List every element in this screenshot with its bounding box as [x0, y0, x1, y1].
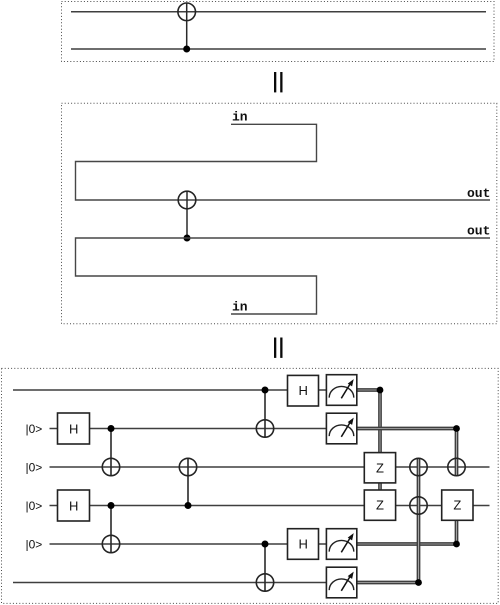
CNOT control dot on w5: [262, 541, 269, 548]
svg-text:in: in: [232, 110, 248, 125]
wire w1: [13, 389, 357, 391]
classically controlled X target on w3 at x=418.5: [410, 458, 427, 475]
junction dot w1 classical: [377, 387, 384, 394]
svg-text:Z: Z: [376, 498, 384, 513]
svg-text:H: H: [69, 499, 78, 514]
classically controlled X target on w3 at x=456.5: [448, 458, 465, 475]
H gate on w5: [288, 529, 319, 560]
wire w4: [90, 505, 490, 507]
CNOT w4->w5 vertical: [110, 506, 112, 553]
svg-text:|0>: |0>: [26, 499, 43, 513]
classical wire from meter w2: [357, 427, 458, 476]
svg-text:|0>: |0>: [26, 461, 43, 475]
CNOT control dot on w2: [108, 425, 115, 432]
Z gate on w4 (classically controlled by w5): [442, 490, 473, 520]
equivalence symbol 1: [274, 72, 283, 92]
junction dot w6 classical: [415, 579, 422, 586]
measurement gate on w2: [326, 413, 356, 444]
CNOT target on w3 at x=111: [102, 458, 119, 475]
wire w2 stub: [50, 428, 58, 430]
CNOT w2->w3 vertical: [110, 429, 112, 476]
CNOT control dot on w4 at x=111: [108, 502, 115, 509]
panel 3 dotted border: [2, 368, 499, 603]
CNOT target on w5: [102, 535, 119, 552]
svg-text:H: H: [69, 422, 78, 437]
svg-text:in: in: [232, 300, 248, 315]
H gate on w2: [58, 413, 90, 444]
wire: top in, folded path to out: [76, 124, 491, 200]
svg-text:out: out: [467, 224, 490, 239]
Z gate on w4 (classically controlled by w1): [364, 490, 395, 520]
panel 1 dotted border: [62, 2, 495, 62]
CNOT control dot on w1: [262, 387, 269, 394]
CNOT vertical wire (panel 2): [186, 191, 188, 238]
H gate on w4: [58, 490, 90, 521]
CNOT target (panel 2): [178, 191, 196, 209]
measurement gate on w1: [326, 375, 356, 406]
CNOT w1->w2 vertical: [264, 390, 266, 437]
junction dot w2 classical: [453, 425, 460, 432]
wire: bottom out, folded path to in: [76, 238, 491, 314]
svg-text:H: H: [299, 383, 308, 398]
CNOT target on w6: [256, 574, 273, 591]
svg-text:out: out: [467, 186, 490, 201]
wire w6: [13, 582, 357, 584]
wire w5: [50, 543, 357, 545]
measurement gate on w5: [326, 529, 356, 560]
wire w3: [50, 466, 490, 468]
svg-text:Z: Z: [453, 498, 461, 513]
svg-text:|0>: |0>: [26, 422, 43, 436]
measurement gate on w6: [326, 567, 356, 598]
junction dot w5 classical: [453, 541, 460, 548]
CNOT w4->w3 vertical: [187, 458, 189, 505]
CNOT target on w2: [256, 420, 273, 437]
CNOT vertical wire (panel 1): [186, 3, 188, 49]
wire q1 (panel 1 top wire): [71, 11, 486, 13]
CNOT target on q1 (panel 1): [178, 3, 196, 21]
CNOT target on w3 at x=188: [179, 458, 196, 475]
Z gate on w3 (classically controlled by w1): [364, 453, 395, 483]
wire w4 stub: [50, 505, 58, 507]
svg-text:|0>: |0>: [26, 538, 43, 552]
wire q2 (panel 1 bottom wire): [71, 48, 486, 50]
CNOT control dot on w4 at x=188: [185, 502, 192, 509]
classical wire from meter w1: [357, 389, 381, 490]
H gate on w1: [288, 375, 319, 406]
svg-text:Z: Z: [376, 460, 384, 475]
wire w2: [90, 428, 357, 430]
svg-text:H: H: [299, 537, 308, 552]
CNOT control dot on q2 (panel 1): [183, 46, 190, 53]
panel 2 dotted border: [62, 103, 497, 323]
CNOT control dot (panel 2): [184, 235, 191, 242]
CNOT w5->w6 vertical: [264, 544, 266, 591]
classically controlled X target on w4 at x=418.5: [410, 497, 427, 514]
classical wire from meter w5: [357, 520, 458, 545]
equivalence symbol 2: [274, 338, 283, 358]
classical wire from meter w6: [357, 459, 420, 584]
